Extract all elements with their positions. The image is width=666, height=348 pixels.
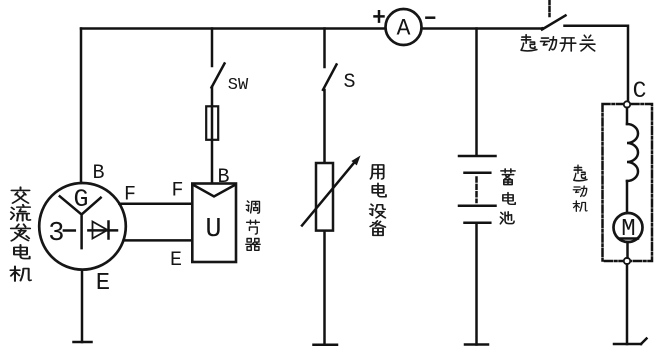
svg-text:E: E xyxy=(96,270,110,297)
svg-text:SW: SW xyxy=(228,76,249,95)
svg-text:E: E xyxy=(170,249,182,272)
svg-text:B: B xyxy=(217,166,229,189)
svg-text:A: A xyxy=(397,16,411,42)
svg-text:B: B xyxy=(92,162,104,185)
svg-text:U: U xyxy=(205,215,221,245)
svg-text:S: S xyxy=(343,71,355,94)
svg-text:C: C xyxy=(633,78,647,104)
svg-text:M: M xyxy=(621,216,635,243)
svg-text:F: F xyxy=(124,184,136,207)
svg-text:G: G xyxy=(73,185,88,214)
svg-text:F: F xyxy=(171,179,183,202)
svg-text:3: 3 xyxy=(48,219,64,249)
